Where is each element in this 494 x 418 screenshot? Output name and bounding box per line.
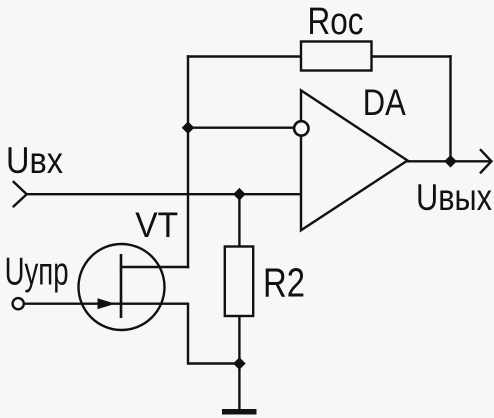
transistor VT circle <box>79 244 165 330</box>
wire main vertical (Roc corner to drain) <box>187 57 189 268</box>
svg-text:DA: DA <box>363 82 406 123</box>
wire feedback vertical <box>449 57 451 162</box>
node junction input/R2 <box>233 188 246 201</box>
transistor VT gate arrow <box>98 298 116 309</box>
wire inverting branch <box>188 126 294 128</box>
node junction bottom <box>233 357 246 370</box>
terminal Uupr open circle <box>13 298 24 309</box>
resistor R2 <box>225 247 253 317</box>
wire output <box>408 160 492 162</box>
wire drain <box>121 266 188 268</box>
svg-text:Uупр: Uупр <box>5 251 69 294</box>
output arrow <box>481 150 492 172</box>
ground <box>222 409 257 415</box>
wire Roc right <box>372 55 451 57</box>
svg-text:R2: R2 <box>263 260 305 306</box>
resistor Roc <box>301 42 372 71</box>
wire gate <box>24 303 121 305</box>
svg-text:Uвх: Uвх <box>6 140 63 181</box>
wire source <box>121 304 239 364</box>
inversion bubble (inverting input) <box>294 121 308 135</box>
wire R2 top <box>238 194 240 246</box>
op-amp U1 triangle DA <box>301 90 408 230</box>
svg-text:VT: VT <box>135 206 178 245</box>
svg-text:Roc: Roc <box>308 1 364 43</box>
wire Roc left <box>188 55 301 57</box>
transistor VT channel bar <box>120 254 123 318</box>
svg-text:Uвых: Uвых <box>416 177 492 218</box>
node junction output <box>444 155 457 168</box>
wire input <box>27 193 301 195</box>
node junction inverting input <box>182 121 195 134</box>
wire R2 bottom <box>238 316 240 410</box>
input terminal chevron <box>14 182 27 206</box>
